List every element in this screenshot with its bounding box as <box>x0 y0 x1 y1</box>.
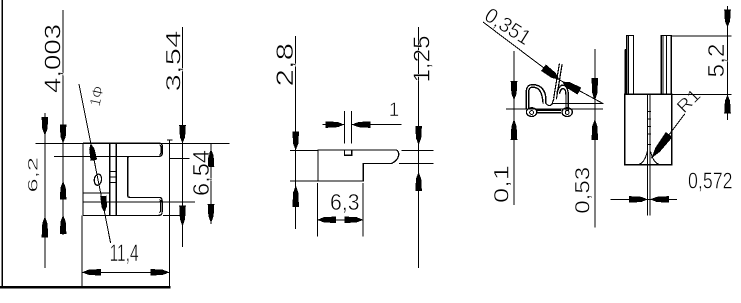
dim line 1 segments <box>323 124 402 126</box>
dim line 5,2 <box>727 6 729 120</box>
svg-text:0,1: 0,1 <box>491 165 514 203</box>
spine hidden line <box>83 192 110 194</box>
R1 fan <box>638 152 660 165</box>
slot ticks <box>647 112 651 145</box>
svg-text:6,2: 6,2 <box>25 157 40 193</box>
bottom arm tip inner line <box>159 200 160 213</box>
svg-text:4,003: 4,003 <box>40 24 66 93</box>
arrow 6,3 right <box>345 217 364 224</box>
part bottom edge <box>83 214 159 216</box>
tick 5,2 upper <box>672 35 732 37</box>
svg-text:3,54: 3,54 <box>162 30 185 91</box>
ext line 11,4 left <box>81 216 83 287</box>
arrow 5,2 upper <box>724 10 731 28</box>
bar tick 3 <box>110 181 117 183</box>
tick 1,25 upper <box>402 149 434 151</box>
svg-text:11,4: 11,4 <box>110 240 139 267</box>
notch left edge <box>128 156 130 197</box>
frame left border <box>2 0 4 289</box>
arrow 1,25 upper <box>415 126 422 145</box>
arrow 6,3 left <box>317 217 336 224</box>
svg-text:1Φ: 1Φ <box>87 84 108 107</box>
left prong <box>625 36 633 95</box>
hole ellipse <box>94 174 103 186</box>
arrow 0,351 a <box>541 65 559 80</box>
leader line phi1 <box>79 84 111 243</box>
part outline top arm <box>83 143 162 156</box>
svg-text:0,351: 0,351 <box>480 4 535 50</box>
svg-text:5,2: 5,2 <box>703 44 729 78</box>
leader arrow up <box>89 143 97 161</box>
arrow 1 right <box>352 121 371 128</box>
arrow 0,1 upper <box>511 81 518 101</box>
arrow 0,572 left <box>629 196 648 203</box>
dim line 0,53 <box>594 49 596 228</box>
R1 leader <box>651 114 685 159</box>
arrow 3,54 upper <box>179 125 186 144</box>
svg-text:0,572: 0,572 <box>688 168 733 194</box>
valley v <box>546 99 554 106</box>
svg-text:0,53: 0,53 <box>572 167 595 214</box>
ext line inner bottom <box>83 201 195 203</box>
part outline middle view <box>318 150 399 181</box>
dim line 4,003 <box>62 10 64 235</box>
leader arrow down <box>100 196 107 213</box>
svg-text:2,8: 2,8 <box>272 43 299 87</box>
ext lines dim 1 <box>345 111 352 144</box>
arrow 5,2 lower <box>724 94 731 113</box>
arrow 0,53 lower <box>592 119 599 140</box>
notch middle view <box>345 150 352 155</box>
ext line bottom right <box>163 214 186 216</box>
dim line 0,572 <box>610 198 677 200</box>
arrow 4,003 lower <box>60 215 67 234</box>
R1 arrow <box>651 132 672 158</box>
ext line inner top left <box>54 155 83 157</box>
tick 5,2 lower <box>672 93 732 95</box>
left arch inner <box>529 87 543 109</box>
arrow 11,4 right <box>151 269 170 276</box>
ext line 11,4 right <box>169 140 171 286</box>
arrow 0,53 upper <box>592 78 599 101</box>
arrow 6,2 upper <box>42 117 49 136</box>
svg-text:6,54: 6,54 <box>188 150 214 196</box>
arrow 6,54 upper <box>208 149 215 167</box>
ext 2,8 upper tick <box>290 149 318 151</box>
arrow 0,572 right <box>650 196 669 203</box>
tick 1,25 lower <box>399 163 434 165</box>
ext lines 6,3 <box>318 183 364 237</box>
svg-text:1,25: 1,25 <box>409 36 435 83</box>
vertical bar line 2 <box>115 143 117 215</box>
right arch inner <box>560 89 567 111</box>
ext line top long <box>36 142 230 144</box>
dim line 6,2 <box>44 113 46 268</box>
small tick near arm tip <box>167 139 173 141</box>
body rect <box>625 94 672 165</box>
arrow 6,54 lower <box>208 204 215 223</box>
part left edge <box>82 143 84 215</box>
arrow 2,8 lower <box>292 185 299 207</box>
right arch outer <box>557 85 568 110</box>
top arm tip inner line <box>159 145 161 155</box>
svg-text:R1: R1 <box>673 85 705 117</box>
bar tick 1 <box>110 171 117 173</box>
right prong <box>661 36 671 95</box>
svg-text:6,3: 6,3 <box>330 189 360 215</box>
arrow 1,25 lower <box>415 172 422 191</box>
bar tick 2 <box>110 176 117 178</box>
bottom bar <box>537 110 562 113</box>
slot lines <box>648 95 650 216</box>
vertical bar line 1 <box>109 143 111 215</box>
arrow 11,4 left <box>82 269 101 276</box>
svg-text:1: 1 <box>389 100 400 121</box>
left arch outer <box>526 85 546 109</box>
notch bottom edge / bottom arm top <box>130 197 163 215</box>
center spike line 1 <box>554 64 560 99</box>
arrow 4,003 upper <box>60 125 67 144</box>
baseline ext <box>506 108 603 110</box>
dim line 3,54 <box>182 27 184 247</box>
dim line 11,4 <box>82 271 170 273</box>
dim line 0,1 <box>513 51 515 205</box>
bottom arm inner line <box>83 200 161 202</box>
dim line 1,25 <box>418 27 420 268</box>
arrow 2,8 upper <box>292 132 299 151</box>
left foot circles <box>526 108 536 117</box>
center spike line 2 <box>556 64 562 99</box>
dim line 6,54 <box>210 144 212 225</box>
right foot circles <box>562 108 572 117</box>
ext tick right of tips <box>170 158 190 160</box>
ext 2,8 lower tick <box>290 180 318 182</box>
frame bottom border <box>0 286 171 289</box>
dim line 6,3 <box>317 219 363 221</box>
valley leader <box>553 103 604 105</box>
arrow 6,2 lower <box>42 216 49 238</box>
arrow 0,351 b <box>562 82 581 95</box>
dim line 0,351 diagonal <box>483 22 604 104</box>
arrow 1 left <box>326 121 345 128</box>
arrow 3,54 lower <box>179 206 186 227</box>
dim line 2,8 <box>295 36 297 229</box>
arrow 4,003 mid <box>60 181 67 200</box>
arrow 0,1 lower <box>511 119 518 140</box>
